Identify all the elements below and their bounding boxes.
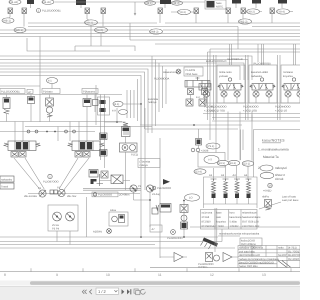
left center frame edge x104.5	[104, 95, 106, 169]
solenoid valve block SV2 (cut at top)	[76, 0, 86, 8]
svg-text:10: 10	[106, 273, 110, 277]
pilot feed riser x162.5	[162, 66, 164, 108]
wire manifold y121	[0, 121, 122, 123]
sensor label box	[184, 67, 203, 76]
svg-text:mitanekoyuri: mitanekoyuri	[242, 212, 257, 215]
control valve housing inner edge	[208, 52, 301, 120]
svg-text:17B382: 17B382	[230, 225, 240, 228]
svg-text:A1: A1	[209, 174, 213, 177]
solenoid valve block SV4 (cut at top)	[232, 0, 241, 8]
notes item 1	[258, 148, 289, 160]
P rail pair 3	[278, 55, 281, 120]
svg-text:8T25B0GA2: 8T25B0GA2	[202, 225, 217, 228]
svg-text:(23-4): (23-4)	[195, 171, 202, 174]
junction dot	[193, 124, 195, 126]
sheet inner border	[150, 267, 300, 269]
wire pump header	[28, 181, 140, 194]
reducing valve RV1	[8, 8, 13, 17]
warning label box	[205, 0, 226, 9]
tank return line 4	[0, 247, 235, 249]
svg-text:PL12O2OOOB1: PL12O2OOOB1	[42, 10, 61, 13]
svg-text:kasumo1+BB2: kasumo1+BB2	[251, 71, 268, 74]
nested riser x134	[133, 90, 135, 118]
pilot feed riser x155.5	[155, 60, 157, 127]
main relief valve MR1	[122, 123, 131, 144]
junction dot	[149, 199, 151, 201]
tag label box above title	[240, 238, 262, 246]
node box (75-135)	[75, 46, 135, 51]
svg-text:4-9: 4-9	[112, 110, 116, 113]
wire right top rail A	[130, 39, 300, 41]
P rail pair 2	[246, 55, 249, 120]
zone numbers	[4, 273, 266, 277]
motor unit box	[109, 209, 128, 226]
svg-text:PL1O6OOO: PL1O6OOO	[157, 187, 171, 190]
relief valve column A	[3, 95, 10, 122]
pilot feed riser x166	[165, 69, 167, 104]
label box drain	[138, 159, 160, 168]
reducing valve RV8	[241, 8, 246, 19]
wire drop x243 lower	[242, 130, 244, 151]
svg-text:(Y9-1): (Y9-1)	[207, 145, 214, 148]
port circle J4	[73, 130, 76, 133]
svg-text:1. monahasekuromita: 1. monahasekuromita	[258, 148, 289, 152]
svg-text:A7: A7	[152, 228, 156, 231]
pilot band line 5	[0, 69, 148, 133]
svg-text:P1: P1	[38, 187, 42, 190]
annotation circled 1 pump	[43, 174, 59, 183]
wire riser x145	[144, 108, 146, 190]
svg-text:(4-1): (4-1)	[114, 103, 120, 106]
svg-text:(X8-2): (X8-2)	[248, 11, 255, 14]
notes item 2	[258, 165, 287, 181]
pilot band line 4	[0, 66, 240, 80]
oval tag (W8-1)	[14, 27, 26, 32]
section feed drop VS2	[230, 44, 232, 65]
label 4-9	[112, 110, 128, 115]
oval tag (HB-1)	[2, 17, 14, 23]
valve section VS2	[217, 65, 245, 103]
svg-text:LS8 OS8 LS82: LS8 OS8 LS82	[242, 225, 260, 228]
wire double manifold	[83, 189, 141, 191]
label swing unit	[148, 98, 159, 104]
svg-text:(24-24): (24-24)	[10, 1, 18, 4]
svg-text:4-4: 4-4	[203, 96, 207, 99]
control valve housing left edge	[209, 49, 211, 140]
temperature sensor TS1	[163, 69, 181, 74]
svg-text:5.4Bto: 5.4Bto	[230, 221, 238, 224]
wire drop x240	[237, 112, 241, 181]
oval feeder tag	[47, 78, 58, 89]
port circle J3	[65, 130, 68, 133]
svg-text:Travel: Travel	[1, 185, 9, 188]
svg-text:PL2O44OOO: PL2O44OOO	[275, 106, 291, 109]
tank return line 3	[0, 244, 155, 246]
wire drop x216	[214, 112, 217, 181]
suction strainer right	[215, 208, 238, 262]
svg-text:O2-3O1O: O2-3O1O	[288, 258, 299, 261]
oval tag (4-1)	[113, 101, 142, 107]
svg-text:PL2O87OOO: PL2O87OOO	[43, 181, 59, 184]
travel control valve right	[68, 141, 104, 157]
wire branch y122	[105, 121, 126, 123]
svg-text:13: 13	[262, 273, 266, 277]
pilot band line 6	[0, 72, 145, 129]
label box P2 group	[82, 89, 98, 94]
svg-text:PL22O9: PL22O9	[186, 69, 196, 72]
svg-text:ka3su2O3O: ka3su2O3O	[241, 239, 255, 242]
junction dot	[140, 236, 142, 238]
legend table	[201, 210, 262, 230]
breather circle	[93, 229, 111, 234]
pilot band line 7	[0, 76, 141, 126]
solenoid box pair	[186, 99, 206, 106]
wire riser x222	[221, 229, 223, 242]
toolbar thumbnails button	[134, 289, 140, 295]
svg-text:A3sa: A3sa	[110, 209, 116, 212]
svg-text:+.2O|2-1OB: +.2O|2-1OB	[243, 109, 257, 112]
label PL3201	[198, 263, 214, 269]
section feed drop VS3	[262, 44, 264, 65]
annotation circled 16	[262, 183, 272, 198]
wire pump box stubs	[57, 224, 150, 245]
annotation circled 1	[37, 9, 62, 13]
svg-text:4-2: 4-2	[196, 96, 200, 99]
wire riser x86	[86, 197, 88, 237]
svg-text:1 / 2: 1 / 2	[98, 289, 107, 294]
valve section VS4	[281, 65, 309, 103]
svg-text:tokasumona: tokasumona	[163, 71, 178, 74]
svg-text:(24-3): (24-3)	[173, 2, 180, 5]
solenoid valve block SV3 (cut at top)	[160, 0, 171, 8]
port circle J2	[35, 130, 38, 133]
svg-text:8T25B0: 8T25B0	[202, 221, 212, 224]
wire drop x252	[248, 112, 252, 181]
wire rail y236	[218, 235, 240, 237]
svg-text:ML3OPOO: ML3OPOO	[288, 254, 300, 257]
lower pump box	[48, 205, 78, 231]
svg-text:PL2O69OOA: PL2O69OOA	[154, 78, 170, 81]
pilot valve unit PV1	[185, 77, 210, 104]
svg-text:A2O8%: A2O8%	[93, 231, 103, 234]
wire drop x228	[226, 112, 229, 181]
svg-text:1O: 1O	[189, 197, 192, 200]
pump regulator box	[98, 97, 110, 115]
wire drop x91	[90, 25, 92, 46]
title block	[238, 246, 301, 269]
svg-text:koyurisa: koyurisa	[283, 75, 293, 78]
pilot manifold frame	[204, 177, 258, 208]
svg-text:11: 11	[158, 273, 162, 277]
nested riser x127	[126, 90, 128, 118]
oval tag (23-5)	[217, 160, 229, 165]
pilot feed riser x152	[151, 56, 153, 133]
svg-text:PL2O43OOO: PL2O43OOO	[243, 106, 259, 109]
svg-text:A3: A3	[233, 174, 237, 177]
frame edge x96	[95, 85, 97, 125]
svg-text:romitane: romitane	[283, 71, 294, 74]
oval tag (Y8-3)	[171, 9, 194, 14]
pump P1	[38, 187, 46, 197]
reducing valve RV2	[22, 8, 27, 27]
junction dot	[46, 131, 48, 133]
wire drop x101	[100, 33, 102, 46]
svg-text:nahaseku: nahaseku	[1, 178, 13, 181]
svg-text:kuromita: kuromita	[253, 247, 264, 250]
svg-text:P2kasumo: P2kasumo	[83, 90, 96, 93]
accumulator relief	[265, 200, 272, 211]
label box travel motor a	[0, 176, 14, 182]
wire drop x130	[129, 23, 131, 40]
svg-text:+6HED: +6HED	[263, 190, 272, 193]
suction strainer left	[160, 253, 187, 262]
notes frame left	[254, 130, 301, 178]
svg-text:P.(C2): P.(C2)	[131, 154, 138, 157]
svg-text:3B#O2OBOmo2O: 3B#O2OBOmo2O	[239, 254, 260, 257]
svg-text:nahaseku: nahaseku	[251, 75, 263, 78]
svg-text:2B+7kw: 2B+7kw	[67, 195, 76, 198]
svg-text:(W8-1): (W8-1)	[15, 29, 23, 32]
svg-text:8: 8	[4, 273, 6, 277]
svg-text:P2: P2	[57, 187, 61, 190]
label box travel motor b	[0, 183, 14, 189]
wire center rail y129	[145, 128, 238, 130]
wire drop x238	[237, 27, 239, 50]
HT tank unit box	[198, 153, 225, 168]
oval tag (24-24)	[9, 0, 21, 4]
left center frame edge x100.5	[100, 95, 102, 161]
svg-text:2O+9Nm: 2O+9Nm	[119, 194, 129, 197]
valve section VS3	[249, 65, 277, 103]
reducing valve RV9	[270, 8, 275, 23]
nested riser x137.5	[137, 79, 139, 121]
tank return line 1	[0, 236, 218, 238]
port circle J1	[27, 130, 30, 133]
wire vertical x40	[39, 37, 41, 123]
svg-text:(23-3): (23-3)	[229, 162, 236, 165]
pilot band line 3	[0, 63, 244, 80]
svg-text:(Y8-4): (Y8-4)	[278, 11, 285, 14]
svg-text:yuri sato kasu: yuri sato kasu	[239, 250, 256, 253]
oval tag (Y8-4)	[277, 9, 294, 14]
pilot bus line 1	[28, 22, 300, 24]
oval tag (X8-2)	[245, 9, 262, 14]
oval tag (W2-2)	[239, 19, 252, 24]
pump P2	[57, 187, 65, 197]
svg-text:12: 12	[210, 273, 214, 277]
svg-text:PL1O5OOO: PL1O5OOO	[98, 194, 112, 197]
svg-text:A2: A2	[221, 174, 225, 177]
valve section VS1 partial	[199, 84, 211, 104]
port circles row	[191, 148, 209, 152]
pilot bus line 4	[0, 33, 300, 35]
delivery arrow	[163, 179, 170, 185]
wire manifold y131	[0, 131, 95, 133]
svg-text:+.2O|2-7OB: +.2O|2-7OB	[211, 109, 225, 112]
pilot band line 2	[0, 60, 248, 81]
wire header y94	[0, 94, 122, 96]
oval tag (Y9-1)	[206, 143, 220, 149]
solenoid spool S1	[211, 179, 217, 204]
solenoid spool S4	[246, 179, 252, 204]
svg-text:HT: HT	[209, 159, 213, 162]
svg-text:(24-1): (24-1)	[146, 2, 153, 5]
svg-text:(23-1): (23-1)	[243, 163, 250, 166]
wire ledge y86	[0, 85, 40, 87]
svg-text:su1mona: su1mona	[202, 212, 213, 215]
tank return line 2	[0, 241, 222, 243]
svg-text:nekoyuri: nekoyuri	[275, 166, 287, 170]
check valve B	[28, 95, 35, 122]
section feed drop VS4	[294, 44, 296, 65]
svg-text:P1risato: P1risato	[43, 90, 53, 93]
nested riser x130.5	[130, 90, 132, 118]
label box PL1202000B1	[0, 89, 25, 94]
junction dot	[116, 121, 118, 123]
wire right top rail B	[155, 43, 300, 45]
svg-text:nahase kuromitanekoyu risatoka: nahase kuromitanekoyu risatokasu	[239, 258, 280, 261]
pilot band line 1	[0, 56, 252, 80]
svg-text:23 Aug: 23 Aug	[152, 193, 161, 196]
svg-text:Last port kasu: Last port kasu	[282, 199, 299, 202]
svg-text:P3 P4: P3 P4	[52, 228, 60, 231]
label box annotation 2	[92, 192, 129, 197]
wire drop x258	[257, 44, 259, 62]
svg-text:(Y8-3): (Y8-3)	[179, 11, 186, 14]
svg-text:PL2O42OOO: PL2O42OOO	[211, 106, 227, 109]
label box P1 group	[42, 89, 60, 94]
oval tag (Y8-1)	[85, 19, 98, 25]
svg-text:(X8-O): (X8-O)	[96, 29, 104, 32]
toolbar next button	[122, 289, 125, 294]
small valve L1	[100, 133, 108, 140]
gauge circle pair box	[120, 143, 138, 190]
travel control valve left	[4, 141, 40, 157]
svg-text:9: 9	[56, 273, 58, 277]
toolbar page dropdown	[96, 288, 119, 294]
wire top rail	[55, 1, 205, 3]
accumulator column	[180, 200, 188, 237]
pilot bus line 3	[0, 29, 300, 31]
oval tag (23-4)	[194, 169, 206, 174]
reducing valve RV4	[101, 8, 106, 27]
P rail pair 1	[214, 55, 217, 120]
hose diagonal 2	[25, 158, 45, 190]
wire manifold y126	[25, 126, 152, 128]
wire drops to travel valves	[15, 122, 87, 142]
pilot feed riser x159	[158, 63, 160, 112]
svg-text:(4-7B1): (4-7B1)	[288, 247, 297, 250]
return filter	[206, 253, 220, 262]
reducing valve RV7	[226, 8, 231, 23]
port label strip row1	[204, 106, 291, 109]
oval tag top pair a	[145, 1, 156, 5]
hose diagonal 1	[14, 158, 40, 190]
svg-text:kasu/NOTES: kasu/NOTES	[262, 139, 285, 143]
svg-text:+P: +P	[28, 91, 32, 94]
solenoid spool S2	[223, 179, 229, 204]
wire drop x240 lower	[240, 130, 242, 161]
svg-text:(HB-1): (HB-1)	[3, 20, 11, 23]
junction dot	[183, 236, 185, 238]
oval tag (23-3)	[228, 160, 240, 165]
pilot bus line 5	[0, 36, 300, 38]
svg-text:mi2ta neko: mi2ta neko	[219, 71, 232, 74]
solenoid valve block SV6 (cut at top)	[278, 0, 287, 8]
wire riser x141	[140, 104, 142, 232]
svg-text:monahasekuromita nekoyurisatok: monahasekuromita nekoyurisatoka	[219, 233, 260, 236]
svg-text:+.2O|2-1O: +.2O|2-1O	[275, 109, 287, 112]
svg-text:nekoyu: nekoyu	[148, 101, 157, 104]
hose diagonal 3	[59, 158, 78, 189]
label pilot ports	[196, 96, 207, 99]
wire drop x117	[116, 108, 118, 122]
pilot valve w spring	[152, 204, 171, 215]
svg-text:2B+14.6kw: 2B+14.6kw	[24, 195, 37, 198]
junction dot	[54, 131, 56, 133]
tank hatch bar	[201, 238, 219, 250]
viewer toolbar	[0, 286, 300, 300]
small valve L2	[100, 150, 108, 157]
svg-text:neko: neko	[278, 247, 284, 250]
svg-text:2T2A8: 2T2A8	[202, 216, 210, 219]
control valve housing top	[210, 48, 300, 50]
svg-text:circuit: circuit	[275, 177, 283, 181]
wire notes rail 2	[212, 120, 300, 122]
port label strip row2	[204, 109, 287, 112]
svg-text:4-1: 4-1	[48, 80, 52, 83]
label 24+14.6kw	[24, 195, 76, 198]
wire pump drops	[134, 192, 151, 224]
inter-pump valves	[50, 190, 58, 194]
small unit box	[150, 225, 162, 232]
svg-text:Bmo2O O2OBO na2O3OO2O: Bmo2O O2OBO na2O3OO2O	[239, 261, 274, 264]
svg-text:NOTE: NOTE	[216, 5, 223, 8]
svg-text:(24-26): (24-26)	[43, 1, 51, 4]
oval annotation 10	[185, 194, 200, 201]
notes title	[262, 139, 285, 143]
svg-text:NL3OP: NL3OP	[278, 254, 287, 257]
annotation circled 5	[152, 186, 171, 196]
port labels row	[209, 174, 248, 177]
sheet zone border	[0, 271, 300, 273]
svg-text:OOA hase: OOA hase	[186, 73, 199, 76]
reducing valve RV6	[194, 8, 199, 23]
wire drop x135	[134, 2, 136, 15]
oval tag (X8-0)	[95, 27, 108, 32]
filter unit cluster	[89, 170, 108, 187]
oval tag (24-26)	[42, 0, 54, 4]
wire notes rail 1	[212, 117, 300, 119]
reducing valve RV5	[158, 8, 163, 23]
svg-text:kasumona: kasumona	[230, 216, 243, 219]
svg-text:riMPa: riMPa	[262, 196, 269, 199]
zone tick marks	[31, 268, 291, 272]
svg-text:OUT OS8 LS8: OUT OS8 LS8	[242, 221, 259, 224]
relief valve C	[46, 95, 54, 122]
solenoid spool S3	[234, 179, 240, 204]
svg-text:koyurisa: koyurisa	[216, 221, 226, 224]
wire corner box left	[27, 38, 110, 51]
scrollbar track	[0, 281, 300, 286]
oval tag (23-1)	[242, 161, 254, 166]
pilot bus line 2	[28, 26, 300, 28]
port rail 2	[203, 113, 300, 115]
svg-text:T7B38: T7B38	[216, 225, 224, 228]
toolbar last-page button	[127, 289, 131, 294]
hose diagonal 4	[65, 158, 90, 189]
wire stub x198	[198, 129, 200, 148]
